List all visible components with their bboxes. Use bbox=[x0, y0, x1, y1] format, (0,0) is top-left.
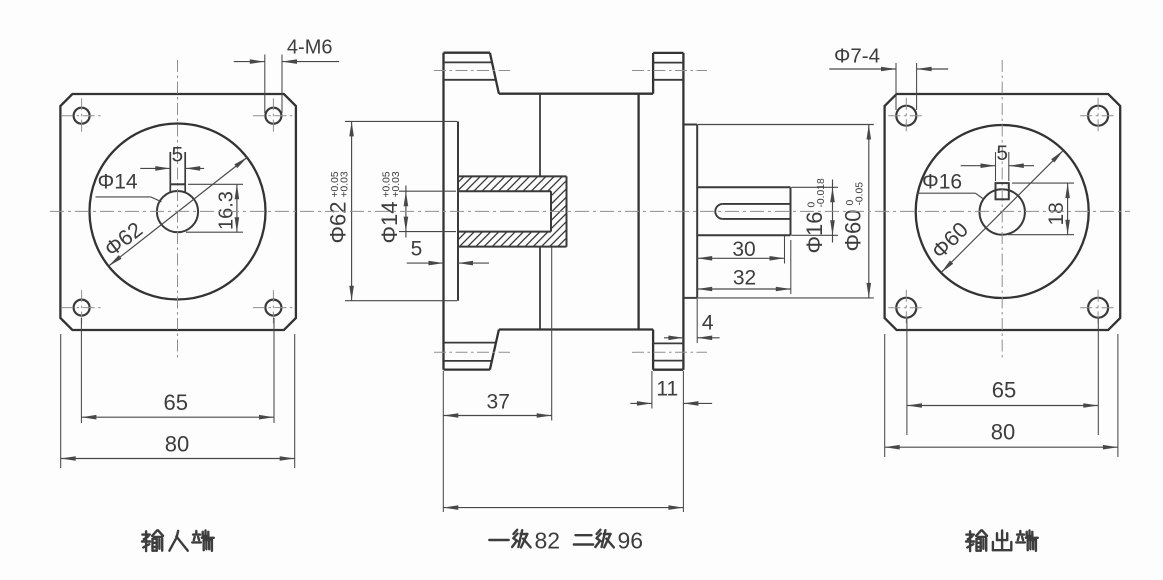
centerline cross of hole PHI7 #4 bbox=[1080, 307, 1116, 309]
svg-text:Φ16: Φ16 bbox=[802, 211, 827, 253]
output shaft PHI16 bbox=[697, 186, 790, 188]
mounting hole PHI7 #4 bbox=[1088, 298, 1108, 318]
corner-bolt centerlines output side bbox=[632, 70, 707, 72]
centerline cross of hole PHI7 #2 bbox=[1080, 115, 1116, 117]
svg-text:96: 96 bbox=[618, 528, 644, 554]
svg-text:30: 30 bbox=[732, 238, 755, 261]
svg-text:4-M6: 4-M6 bbox=[287, 37, 333, 59]
centerline cross of hole #1 bbox=[61, 115, 102, 117]
svg-text:Φ62: Φ62 bbox=[326, 201, 351, 243]
output pilot boss PHI60 bbox=[683, 124, 697, 126]
svg-text:Φ14: Φ14 bbox=[98, 171, 138, 194]
mounting hole PHI7 #3 bbox=[896, 298, 916, 318]
dim 5 (key width, left view) bbox=[140, 167, 170, 169]
dim 30 bbox=[784, 236, 786, 264]
svg-text:5: 5 bbox=[172, 144, 184, 167]
input shaft bore PHI14 bbox=[157, 191, 198, 232]
svg-text:+0.03: +0.03 bbox=[340, 171, 351, 197]
svg-text:82: 82 bbox=[535, 528, 561, 554]
body stage separator line bbox=[539, 94, 541, 177]
label output end (Chinese) bbox=[966, 533, 973, 535]
vertical centerline of left view bbox=[177, 60, 179, 358]
dim 80 bottom right view bbox=[884, 334, 886, 457]
centerline cross of hole PHI7 #1 bbox=[888, 115, 924, 117]
dim PHI7-4 top bbox=[895, 63, 897, 110]
svg-text:5: 5 bbox=[996, 142, 1008, 165]
dim 37 bbox=[442, 371, 444, 512]
output flange plate bbox=[652, 53, 654, 94]
output flange top corner band bbox=[653, 52, 683, 54]
corner-bolt centerlines input side bbox=[434, 70, 510, 72]
label input end (Chinese) bbox=[142, 533, 149, 535]
mounting hole M6 #4 bbox=[265, 300, 281, 316]
svg-text:11: 11 bbox=[656, 378, 678, 401]
mounting hole M6 #3 bbox=[74, 300, 90, 316]
input pilot circle PHI62 bbox=[90, 124, 266, 300]
svg-text:80: 80 bbox=[165, 432, 189, 457]
input flange square outline bbox=[60, 94, 296, 330]
centerline cross of hole PHI7 #3 bbox=[888, 307, 924, 309]
svg-text:32: 32 bbox=[733, 267, 756, 290]
label stage length (Chinese) bbox=[489, 539, 508, 541]
dim 18 bbox=[1012, 182, 1074, 184]
svg-text:18: 18 bbox=[1045, 202, 1068, 225]
input flange bottom corner band bbox=[444, 368, 490, 370]
output keyway (face) bbox=[996, 183, 1009, 199]
dim 65 bottom right view bbox=[906, 318, 908, 435]
dim PHI62 with tolerance (rotated) bbox=[345, 120, 457, 122]
centerline cross of hole #4 bbox=[253, 307, 294, 309]
output shaft circle PHI16 bbox=[980, 189, 1025, 234]
mounting hole M6 #2 bbox=[265, 108, 281, 124]
svg-text:Φ7-4: Φ7-4 bbox=[834, 45, 880, 68]
input flange plate left edge bbox=[442, 53, 444, 370]
diagonal diameter line PHI60 bbox=[941, 150, 1063, 272]
svg-text:37: 37 bbox=[487, 391, 510, 414]
svg-text:65: 65 bbox=[992, 378, 1016, 403]
output pilot circle PHI60 bbox=[916, 125, 1089, 298]
vertical centerline of right view bbox=[1001, 60, 1003, 358]
svg-text:-0.05: -0.05 bbox=[855, 182, 866, 206]
dim PHI16 with tolerance (rotated) bbox=[792, 186, 839, 188]
dim 80 bottom left view bbox=[60, 334, 62, 468]
svg-text:Φ60: Φ60 bbox=[841, 209, 866, 251]
svg-text:16.3: 16.3 bbox=[215, 191, 237, 230]
svg-text:5: 5 bbox=[411, 238, 423, 261]
dim 32 bbox=[790, 240, 792, 294]
keyway slot in left view bbox=[169, 152, 171, 193]
shaft keyway slot (side) bbox=[715, 204, 722, 219]
dim 4-M6 top bbox=[264, 55, 266, 114]
svg-text:4: 4 bbox=[702, 311, 714, 334]
svg-text:-0.018: -0.018 bbox=[816, 178, 827, 207]
dim PHI60 with tolerance (rotated) bbox=[698, 124, 874, 126]
mounting hole M6 #1 bbox=[74, 108, 90, 124]
input bore block (section) bbox=[458, 175, 567, 177]
dim 5 (flange plate thickness) bbox=[407, 262, 444, 264]
diagonal diameter line PHI62 bbox=[108, 157, 247, 266]
svg-text:Φ14: Φ14 bbox=[377, 201, 402, 243]
overall length dimension line bbox=[443, 507, 683, 509]
dim PHI14 with tolerance (rotated) bbox=[399, 190, 456, 192]
dim 16.3 bbox=[188, 183, 243, 185]
mounting hole PHI7 #2 bbox=[1088, 106, 1108, 126]
output flange bottom corner band bbox=[653, 369, 683, 371]
gearbox body outline bbox=[499, 93, 653, 95]
dim 65 bottom left view bbox=[80, 318, 82, 423]
centerline cross of hole #2 bbox=[253, 115, 294, 117]
dim 4 (boss height) bbox=[696, 299, 698, 343]
input flange spigot edge bbox=[457, 121, 459, 300]
svg-text:65: 65 bbox=[164, 390, 188, 415]
centerline cross of hole #3 bbox=[61, 307, 102, 309]
dim 11 bbox=[651, 371, 653, 409]
mounting hole PHI7 #1 bbox=[896, 106, 916, 126]
output flange square outline bbox=[885, 94, 1121, 330]
svg-text:80: 80 bbox=[991, 419, 1015, 444]
svg-text:+0.03: +0.03 bbox=[391, 171, 402, 197]
svg-text:Φ16: Φ16 bbox=[922, 170, 962, 193]
input flange top corner band bbox=[444, 52, 490, 54]
main horizontal axis centerline bbox=[50, 210, 1130, 212]
dim 5 (output key width) bbox=[995, 152, 997, 181]
